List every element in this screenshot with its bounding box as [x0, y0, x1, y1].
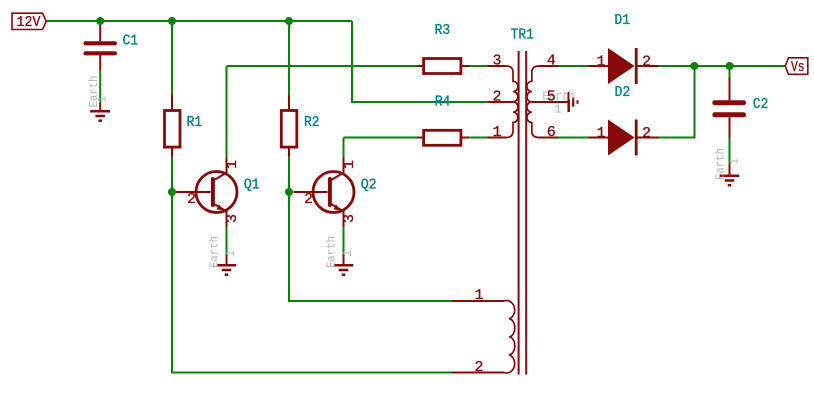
- svg-text:12V: 12V: [17, 14, 41, 31]
- svg-text:2: 2: [642, 125, 651, 142]
- svg-text:TR1: TR1: [511, 27, 534, 44]
- svg-text:C2: C2: [753, 96, 769, 113]
- svg-text:D1: D1: [614, 12, 630, 29]
- svg-text:R2: R2: [304, 114, 320, 131]
- svg-text:Earth: Earth: [325, 236, 339, 268]
- svg-text:Earth: Earth: [208, 236, 222, 268]
- svg-text:3: 3: [493, 53, 502, 70]
- svg-text:3: 3: [341, 214, 358, 223]
- svg-text:2: 2: [475, 359, 484, 376]
- svg-text:D2: D2: [615, 84, 631, 101]
- svg-text:Q1: Q1: [244, 177, 260, 194]
- svg-text:2: 2: [493, 88, 502, 105]
- svg-text:4: 4: [547, 53, 556, 70]
- svg-text:1: 1: [341, 160, 358, 169]
- svg-text:3: 3: [224, 214, 241, 223]
- svg-text:C1: C1: [123, 33, 139, 50]
- svg-text:Vs: Vs: [791, 59, 805, 76]
- svg-text:6: 6: [547, 124, 556, 141]
- svg-text:1: 1: [96, 96, 110, 103]
- svg-text:5: 5: [547, 88, 556, 105]
- svg-text:1: 1: [341, 250, 355, 257]
- svg-text:Q2: Q2: [361, 177, 377, 194]
- svg-text:Earth: Earth: [714, 148, 728, 180]
- svg-text:2: 2: [187, 191, 196, 208]
- svg-text:1: 1: [493, 124, 502, 141]
- svg-text:1: 1: [728, 158, 742, 165]
- svg-text:2: 2: [304, 191, 313, 208]
- svg-text:1: 1: [475, 287, 484, 304]
- svg-text:R1: R1: [187, 114, 203, 131]
- svg-text:1: 1: [597, 125, 606, 142]
- svg-text:1: 1: [224, 160, 241, 169]
- svg-text:2: 2: [642, 53, 651, 70]
- svg-text:1: 1: [597, 53, 606, 70]
- svg-text:R4: R4: [435, 94, 451, 111]
- svg-text:R3: R3: [435, 22, 451, 39]
- svg-text:1: 1: [224, 250, 238, 257]
